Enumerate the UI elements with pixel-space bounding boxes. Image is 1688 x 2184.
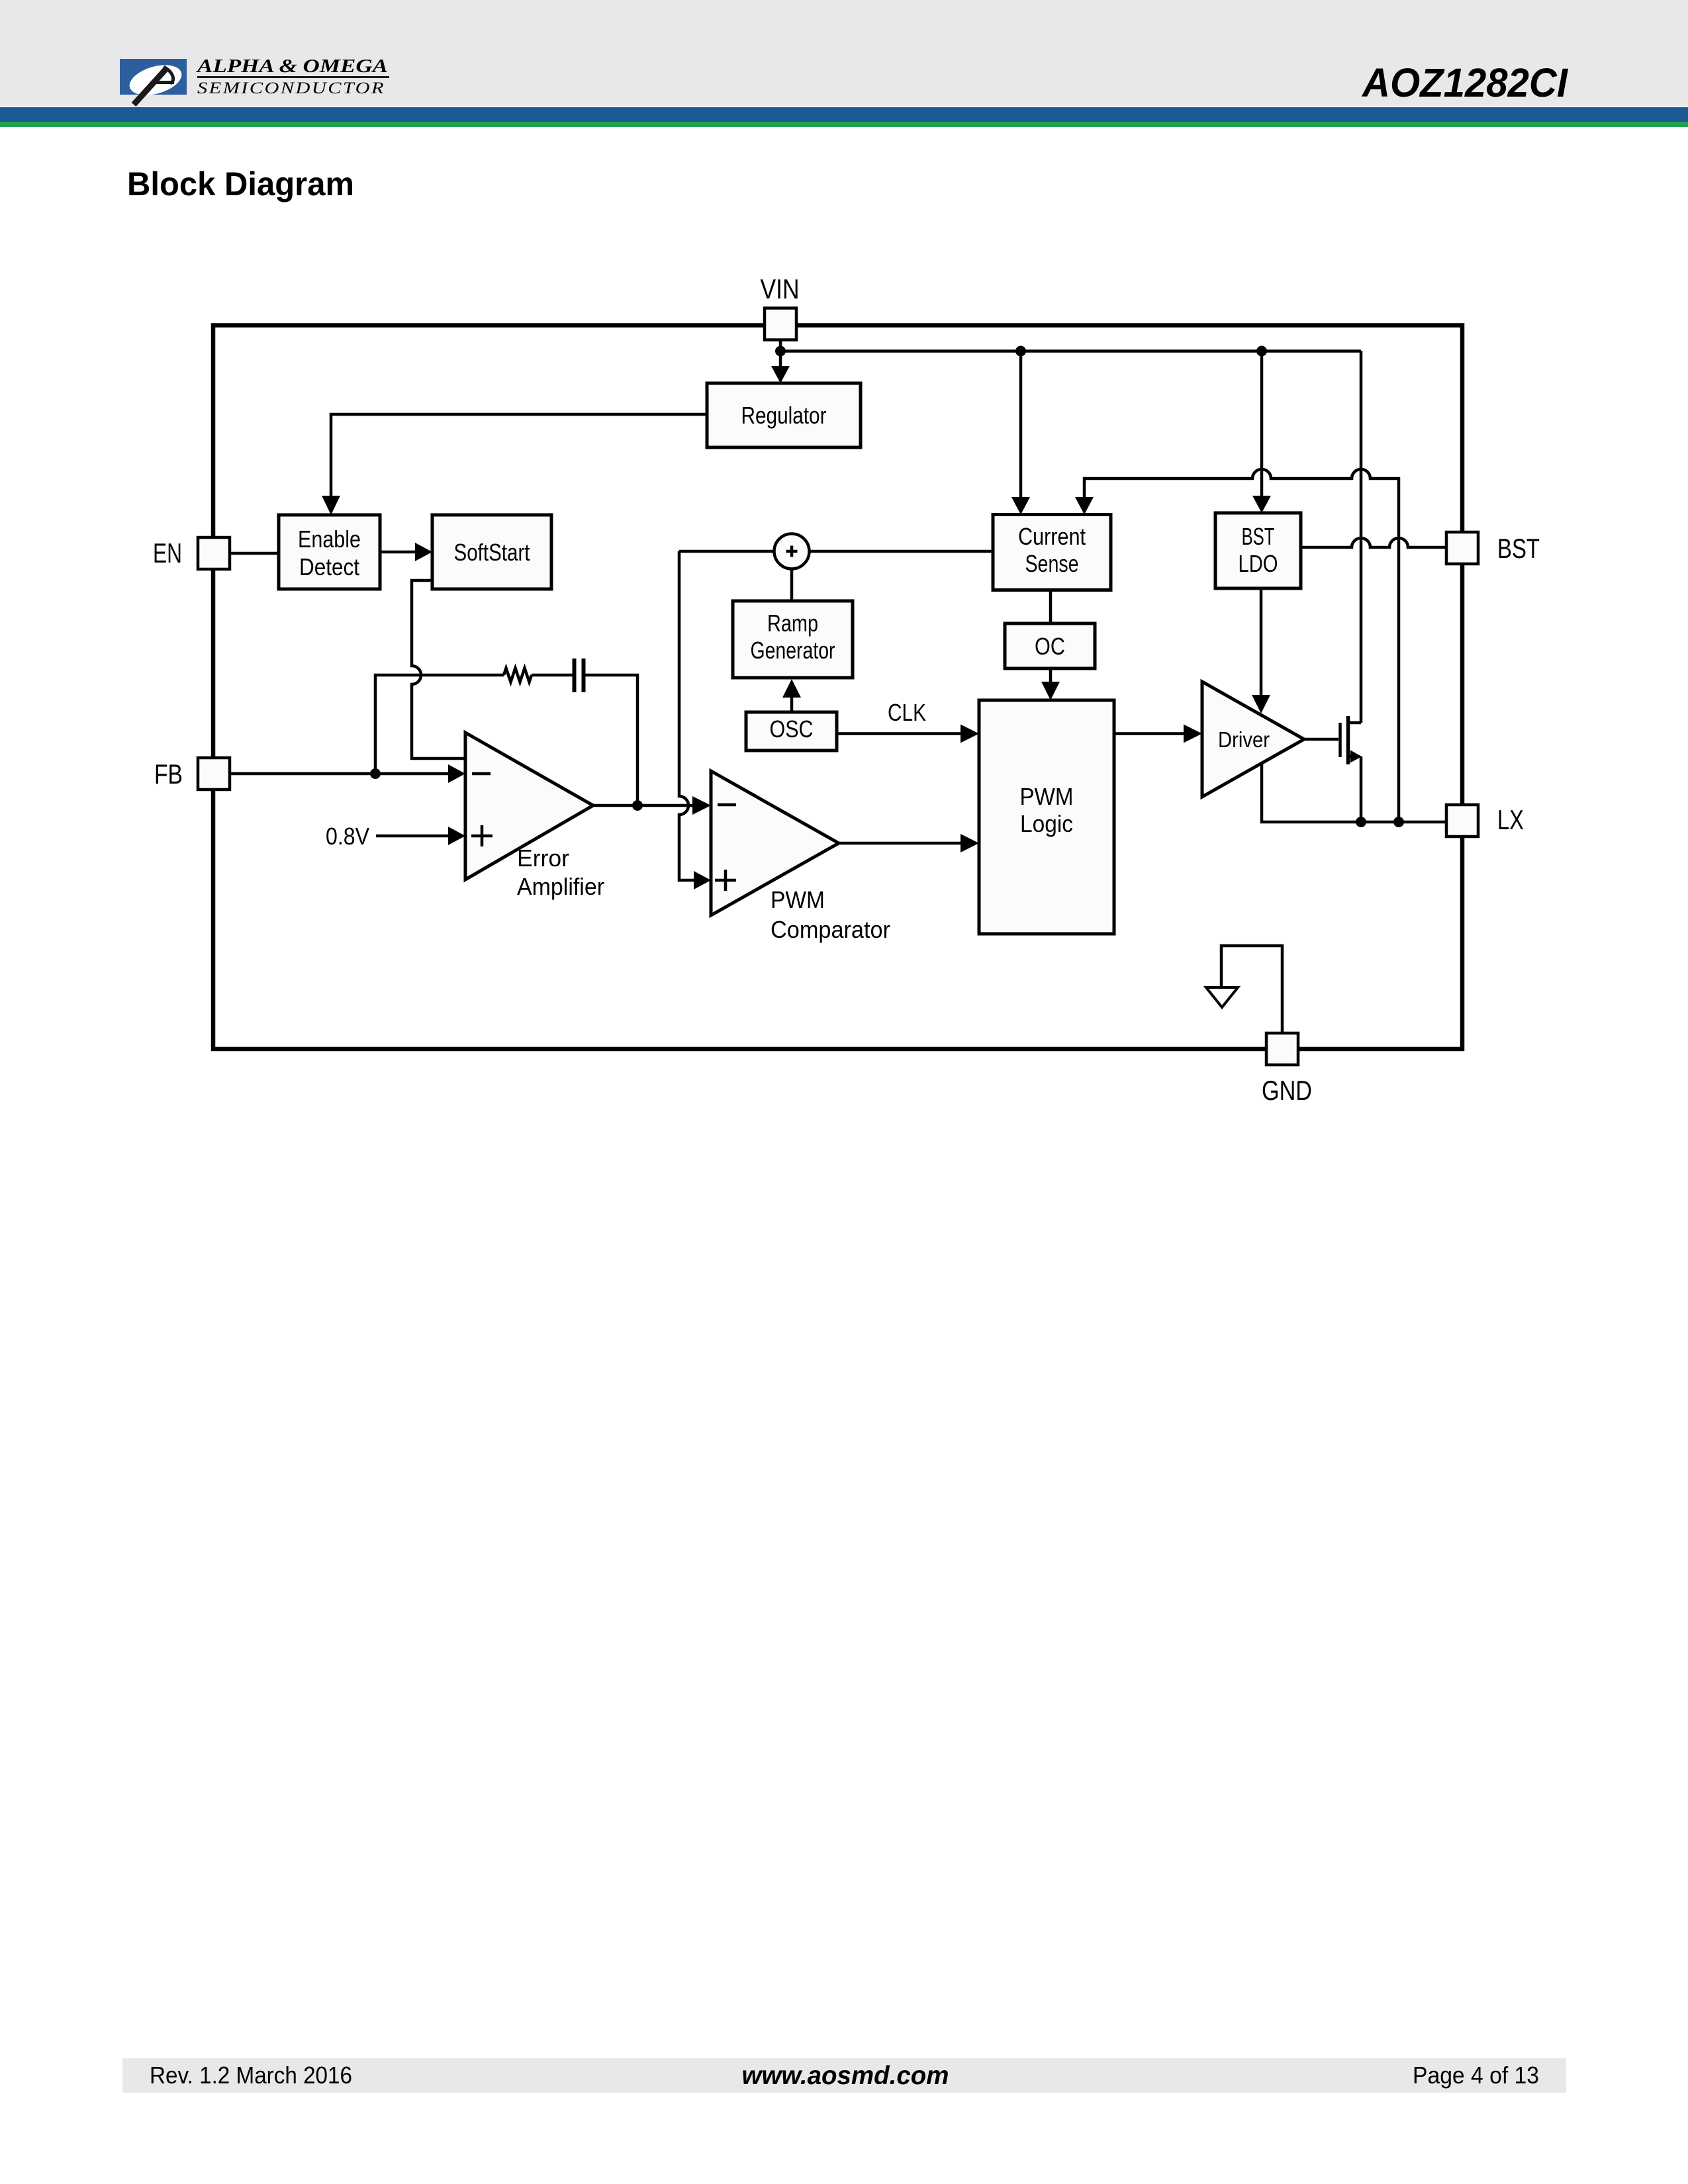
wire BST LDO output to BST pin with hops [1301, 538, 1446, 547]
wire Regulator to Enable Detect [331, 414, 707, 497]
wire FB node up to compensation network [375, 675, 504, 774]
wire LX sense line y=723 with hops [1084, 469, 1399, 822]
pin EN square [198, 537, 230, 569]
ground symbol [1206, 987, 1238, 1007]
svg-text:Enable: Enable [298, 525, 361, 553]
logo white ellipse [126, 60, 185, 101]
wire Enable Detect to SoftStart [380, 551, 416, 554]
wire Driver gate [1304, 738, 1338, 741]
svg-text:BST: BST [1242, 523, 1275, 550]
wire error amp output to comparator [593, 804, 694, 807]
wire EN pin to Enable Detect [230, 552, 279, 555]
svg-text:LDO: LDO [1239, 550, 1278, 577]
wire LX rail from Driver bottom [1262, 763, 1446, 822]
wire summing circle left segment [679, 550, 774, 553]
logo underline [197, 76, 389, 78]
wire VIN distribution rail y=530 [780, 349, 1361, 353]
node dot sense vertical at LX [1393, 817, 1404, 827]
wire OSC to Ramp Generator [790, 696, 794, 712]
footer bar [122, 2058, 1566, 2093]
block SoftStart [432, 515, 551, 589]
block Ramp Generator [733, 601, 853, 678]
block OC [1005, 623, 1095, 668]
pin GND square [1266, 1033, 1298, 1065]
pin LX square [1446, 805, 1478, 837]
comparator minus symbol [718, 803, 736, 807]
wire VIN down to Current Sense [1019, 351, 1023, 498]
svg-text:CLK: CLK [888, 699, 926, 726]
wire OSC CLK to PWM Logic [837, 732, 962, 735]
wire PWM Logic to Driver [1114, 732, 1185, 735]
wire OC to PWM Logic [1049, 668, 1053, 683]
wire VIN down to BST LDO [1260, 351, 1264, 497]
wire SoftStart down to error amp with hop [412, 580, 465, 758]
svg-text:Regulator: Regulator [741, 402, 827, 429]
svg-text:Logic: Logic [1020, 810, 1073, 837]
transistor Q1 source connection with arrow [1349, 755, 1352, 758]
node dot at x1906 [1256, 346, 1267, 357]
logo alpha glyph [134, 69, 166, 105]
svg-text:FB: FB [154, 758, 183, 790]
outer boundary rectangle [213, 326, 1462, 1050]
svg-text:LX: LX [1497, 804, 1524, 835]
wire summing circle to Current Sense [810, 550, 994, 553]
svg-text:EN: EN [153, 537, 182, 569]
svg-text:SoftStart: SoftStart [454, 539, 530, 566]
logo blue box [120, 59, 187, 95]
wire MOSFET source down to LX rail [1360, 756, 1363, 822]
wire BST LDO down to Driver [1260, 588, 1263, 696]
svg-text:Comparator: Comparator [771, 916, 890, 943]
transistor Q1 gate bar [1338, 723, 1342, 757]
svg-text:PWM: PWM [1020, 783, 1074, 810]
transistor Q1 drain connection [1349, 721, 1361, 725]
svg-text:Block Diagram: Block Diagram [127, 165, 354, 203]
buffer Driver triangle [1202, 682, 1304, 797]
node dot at x1542 [1015, 346, 1026, 357]
comparator plus symbol [715, 870, 736, 891]
svg-text:Sense: Sense [1025, 550, 1079, 577]
svg-text:Amplifier: Amplifier [517, 873, 604, 900]
block Current Sense [993, 515, 1111, 590]
label Error Amplifier [517, 844, 604, 900]
pin VIN square [765, 308, 796, 340]
svg-text:SEMICONDUCTOR: SEMICONDUCTOR [197, 79, 385, 97]
wire summing node down to comparator plus with hop [679, 551, 695, 880]
wire capacitor to output node [585, 675, 637, 805]
svg-text:0.8V: 0.8V [326, 823, 369, 850]
wire GND connection [1221, 946, 1282, 1033]
svg-text:VIN: VIN [761, 273, 800, 304]
svg-text:Driver: Driver [1218, 727, 1270, 752]
wire 0.8V reference to error amp [376, 835, 449, 838]
svg-text:Generator: Generator [751, 637, 835, 664]
block BST LDO [1215, 513, 1301, 588]
block PWM Logic [979, 700, 1114, 934]
error amp plus symbol [471, 825, 492, 846]
wire comparator output to PWM Logic [839, 842, 962, 845]
svg-text:Current: Current [1018, 523, 1086, 550]
resistor feedback R [504, 668, 532, 682]
svg-text:BST: BST [1497, 533, 1540, 564]
svg-text:Error: Error [517, 844, 569, 872]
wire arrow into Regulator top [779, 351, 782, 367]
svg-text:ALPHA & OMEGA: ALPHA & OMEGA [195, 56, 388, 77]
svg-text:GND: GND [1262, 1075, 1312, 1106]
wire VIN down to MOSFET drain [1360, 351, 1363, 723]
pin BST square [1446, 532, 1478, 564]
label PWM Comparator [771, 886, 890, 943]
wire summing circle to Ramp Generator [790, 569, 794, 602]
wire VIN stub below pin [779, 340, 782, 351]
svg-text:PWM: PWM [771, 886, 825, 913]
svg-text:OC: OC [1035, 633, 1065, 660]
summing junction circle [774, 534, 810, 569]
svg-text:Rev. 1.2 March 2016: Rev. 1.2 March 2016 [150, 2062, 352, 2089]
header green bar [0, 122, 1688, 127]
node dot MOSFET source at LX [1356, 817, 1366, 827]
block OSC [746, 712, 837, 751]
svg-text:Ramp: Ramp [767, 610, 818, 637]
node FB junction dot [370, 768, 381, 779]
block Regulator [707, 383, 861, 447]
svg-text:Detect: Detect [299, 553, 359, 580]
op-amp Error Amplifier triangle [465, 733, 593, 880]
node error amp output dot [632, 800, 643, 811]
header gray band [0, 0, 1688, 106]
block Enable Detect [279, 515, 380, 589]
header blue bar [0, 107, 1688, 122]
comparator PWM Comparator triangle [711, 771, 839, 915]
svg-text:AOZ1282CI: AOZ1282CI [1361, 60, 1568, 105]
svg-text:OSC: OSC [770, 715, 814, 743]
error amp minus symbol [472, 772, 491, 776]
pin FB square [198, 758, 230, 790]
wire FB to error amp inverting input [230, 772, 449, 776]
wire Current Sense to OC [1049, 588, 1053, 623]
svg-text:Page 4 of 13: Page 4 of 13 [1413, 2062, 1539, 2089]
capacitor feedback C [575, 659, 584, 692]
wire resistor to capacitor [532, 674, 573, 677]
svg-text:www.aosmd.com: www.aosmd.com [742, 2062, 949, 2090]
node VIN junction dot [775, 346, 786, 357]
transistor Q1 channel bar [1346, 716, 1350, 764]
